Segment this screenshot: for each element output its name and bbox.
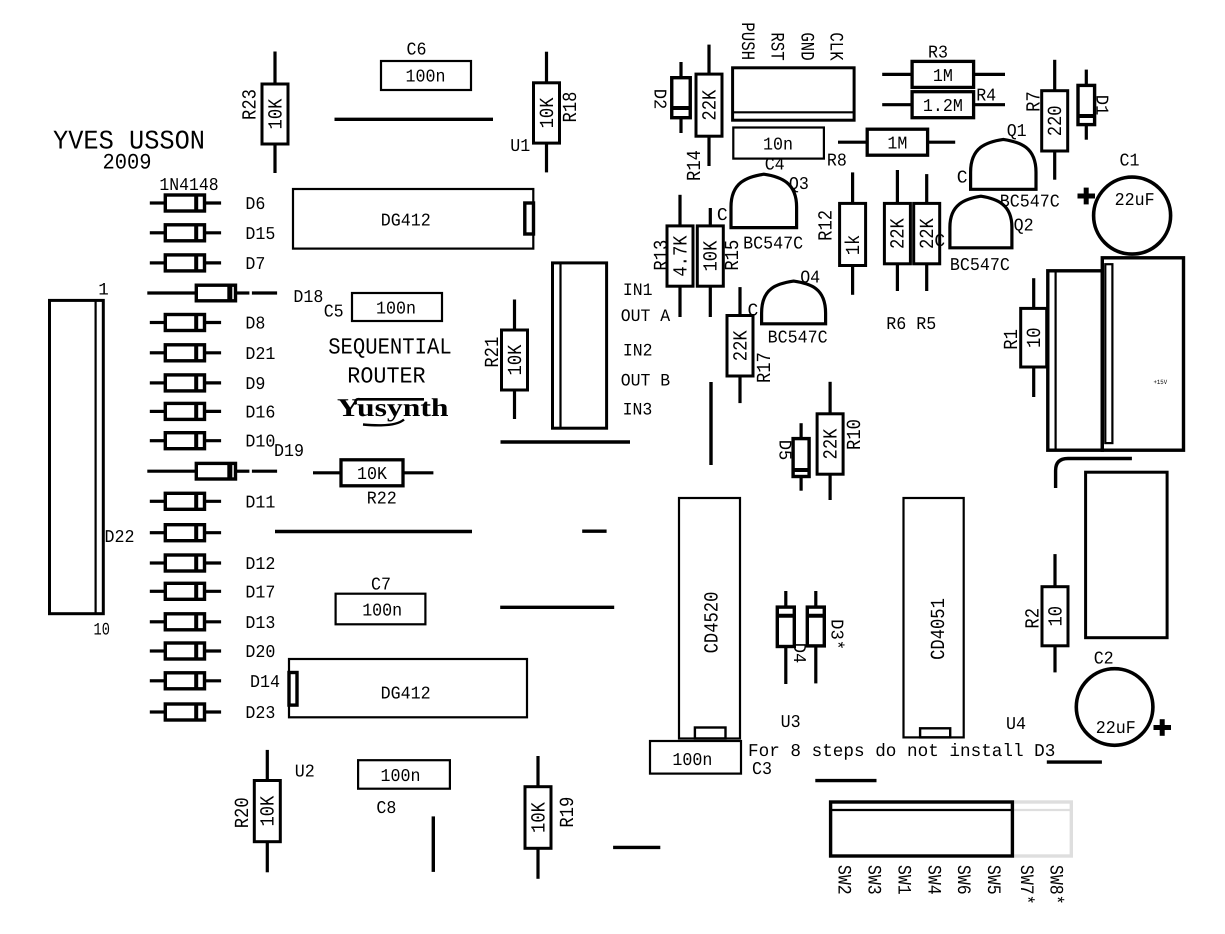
- svg-text:10: 10: [1024, 327, 1047, 348]
- diode D3*: [807, 591, 824, 683]
- connector J2 (IN/OUT): [553, 263, 607, 428]
- capacitor block C2 region box: [1086, 472, 1168, 638]
- transistor Q4: [762, 281, 826, 324]
- svg-text:BC547C: BC547C: [768, 329, 828, 349]
- svg-text:D12: D12: [245, 555, 275, 575]
- diode D23: [150, 704, 221, 720]
- resistor R15: [697, 208, 723, 317]
- svg-text:SW7*: SW7*: [1015, 865, 1037, 905]
- diode D20: [150, 643, 221, 659]
- svg-text:D1: D1: [1091, 95, 1111, 116]
- resistor R4: [882, 92, 1005, 118]
- IC U3 CD4520: [679, 498, 740, 739]
- wire: [582, 530, 606, 533]
- svg-text:D20: D20: [245, 643, 275, 663]
- svg-text:100n: 100n: [376, 300, 416, 320]
- svg-text:Q1: Q1: [1007, 122, 1027, 142]
- transistor Q3: [731, 174, 797, 227]
- svg-text:D16: D16: [245, 404, 275, 424]
- svg-text:10: 10: [94, 621, 110, 641]
- resistor R19: [525, 756, 551, 879]
- svg-text:Q2: Q2: [1014, 217, 1034, 237]
- diode D16: [150, 403, 221, 419]
- svg-text:ROUTER: ROUTER: [347, 363, 425, 389]
- svg-text:1.2M: 1.2M: [923, 97, 963, 117]
- power header body: [1102, 258, 1183, 450]
- svg-text:R10: R10: [844, 419, 867, 450]
- diode D13: [150, 614, 221, 630]
- diode D15: [150, 225, 221, 241]
- resistor R5: [914, 174, 940, 291]
- svg-text:R19: R19: [557, 797, 580, 828]
- svg-text:GND: GND: [795, 32, 817, 60]
- resistor R10: [817, 382, 843, 500]
- diode D19: [147, 463, 277, 479]
- svg-text:R1: R1: [1001, 329, 1024, 350]
- plus sign of C2: [1154, 719, 1172, 736]
- transistor Q1: [971, 139, 1036, 189]
- svg-text:D10: D10: [245, 433, 275, 453]
- svg-text:R2: R2: [1023, 608, 1046, 629]
- svg-text:D14: D14: [250, 673, 280, 693]
- resistor R3: [882, 61, 1005, 87]
- svg-text:R21: R21: [482, 337, 505, 368]
- connector J3 (PUSH/RST/GND/CLK): [733, 68, 855, 120]
- svg-text:22K: 22K: [888, 218, 911, 249]
- svg-text:220: 220: [1045, 105, 1068, 136]
- diode D8: [150, 315, 221, 331]
- svg-text:IN3: IN3: [623, 400, 653, 420]
- switch connector gray extension (SW7/SW8): [1012, 802, 1071, 856]
- svg-text:C6: C6: [407, 41, 427, 61]
- svg-text:IN1: IN1: [623, 281, 653, 301]
- svg-text:SW4: SW4: [922, 865, 944, 895]
- svg-text:DG412: DG412: [381, 685, 431, 705]
- svg-text:D2: D2: [649, 89, 669, 110]
- svg-text:R18: R18: [560, 92, 583, 123]
- capacitor C6: [381, 61, 471, 90]
- diode D7: [150, 255, 221, 271]
- diode D2: [672, 62, 691, 133]
- svg-text:100n: 100n: [362, 602, 402, 622]
- logo Yusynth: [337, 393, 449, 425]
- wire: [335, 118, 494, 121]
- svg-text:SW5: SW5: [982, 865, 1004, 895]
- svg-text:R22: R22: [367, 490, 397, 510]
- svg-text:D7: D7: [245, 255, 265, 275]
- plus sign of C1: [1078, 188, 1096, 205]
- capacitor C4: [733, 128, 824, 159]
- svg-text:SW2: SW2: [833, 865, 855, 895]
- svg-text:D21: D21: [245, 345, 275, 365]
- svg-text:U3: U3: [781, 713, 801, 733]
- diode D17: [150, 583, 221, 599]
- svg-text:RST: RST: [765, 32, 787, 60]
- capacitor C3: [650, 741, 741, 774]
- pin-1 notch of U4: [920, 728, 950, 737]
- svg-text:100n: 100n: [381, 767, 421, 787]
- wire: [275, 530, 472, 533]
- svg-text:10K: 10K: [357, 465, 387, 485]
- svg-text:R8: R8: [827, 152, 847, 172]
- svg-text:10: 10: [1045, 606, 1068, 627]
- svg-text:C2: C2: [1094, 650, 1114, 670]
- diode D4: [777, 591, 794, 684]
- wire: [500, 606, 614, 609]
- IC U1 DG412: [293, 189, 533, 249]
- svg-text:22uF: 22uF: [1096, 719, 1136, 739]
- resistor R14: [696, 45, 722, 166]
- resistor R18: [534, 52, 560, 173]
- resistor R12: [840, 172, 866, 294]
- resistor R8: [838, 129, 955, 155]
- svg-text:D22: D22: [105, 528, 135, 548]
- svg-text:1M: 1M: [933, 67, 953, 87]
- IC U4 CD4051: [904, 498, 964, 737]
- svg-text:D11: D11: [245, 494, 275, 514]
- svg-text:C: C: [934, 232, 945, 252]
- IC U2 DG412: [289, 659, 527, 717]
- svg-text:1: 1: [98, 280, 109, 300]
- svg-text:D8: D8: [245, 315, 265, 335]
- switch connector body: [831, 802, 1013, 856]
- wire: [709, 382, 712, 465]
- svg-text:10K: 10K: [505, 345, 528, 376]
- power connector inner line: [1054, 271, 1056, 450]
- resistor R20: [254, 750, 280, 872]
- resistor R17: [727, 287, 753, 403]
- svg-text:R12: R12: [816, 210, 839, 241]
- connector J1 (left 10-pin): [50, 300, 104, 613]
- svg-text:R6 R5: R6 R5: [886, 315, 936, 335]
- svg-text:100n: 100n: [406, 68, 446, 88]
- svg-text:D18: D18: [293, 288, 323, 308]
- svg-text:C1: C1: [1120, 152, 1140, 172]
- svg-text:U4: U4: [1006, 715, 1026, 735]
- svg-text:IN2: IN2: [623, 341, 653, 361]
- svg-text:10K: 10K: [537, 98, 560, 129]
- svg-text:C4: C4: [765, 156, 785, 176]
- svg-text:D3*: D3*: [826, 619, 846, 650]
- svg-text:OUT B: OUT B: [621, 372, 671, 392]
- svg-text:2009: 2009: [103, 151, 152, 176]
- svg-text:R15: R15: [722, 240, 745, 271]
- wire: [613, 846, 660, 849]
- svg-text:U2: U2: [295, 762, 315, 782]
- svg-text:C5: C5: [324, 303, 344, 323]
- capacitor C1 (22uF electrolytic): [1094, 177, 1171, 254]
- svg-text:SEQUENTIAL: SEQUENTIAL: [328, 335, 452, 361]
- svg-text:SW3: SW3: [862, 865, 884, 895]
- svg-text:1N4148: 1N4148: [159, 176, 218, 196]
- wire: [501, 440, 631, 443]
- diode D12: [150, 555, 221, 571]
- svg-text:PUSH: PUSH: [736, 22, 758, 60]
- svg-text:D5: D5: [773, 440, 793, 461]
- capacitor C7: [336, 594, 426, 625]
- svg-text:1k: 1k: [843, 235, 866, 256]
- svg-text:C: C: [717, 206, 728, 226]
- svg-text:SW6: SW6: [952, 865, 974, 895]
- svg-text:C7: C7: [371, 576, 391, 596]
- diode D5: [793, 423, 809, 491]
- wire: [1047, 760, 1102, 763]
- svg-text:SW1: SW1: [893, 865, 915, 895]
- diode D9: [150, 375, 221, 391]
- svg-text:10K: 10K: [528, 802, 551, 833]
- svg-text:BC547C: BC547C: [950, 256, 1010, 276]
- svg-text:10K: 10K: [265, 99, 288, 130]
- svg-text:SW8*: SW8*: [1045, 865, 1067, 905]
- svg-text:C3: C3: [752, 760, 772, 780]
- resistor R22: [313, 460, 433, 486]
- svg-text:D15: D15: [245, 225, 275, 245]
- svg-text:BC547C: BC547C: [743, 234, 803, 254]
- diode D6: [150, 195, 221, 211]
- diode D10: [150, 433, 221, 449]
- transistor Q2: [950, 196, 1012, 248]
- svg-text:D13: D13: [245, 614, 275, 634]
- diode D22: [150, 525, 221, 541]
- capacitor C5: [352, 293, 442, 321]
- svg-text:22K: 22K: [730, 330, 753, 361]
- svg-text:U1: U1: [510, 137, 530, 157]
- svg-text:D23: D23: [245, 704, 275, 724]
- svg-text:Q4: Q4: [800, 268, 820, 288]
- diode D11: [150, 493, 221, 509]
- power header key strip: [1105, 264, 1112, 443]
- svg-text:R20: R20: [232, 797, 255, 828]
- pin-1 notch of U2: [289, 673, 297, 706]
- diode D21: [150, 345, 221, 361]
- resistor R7: [1042, 60, 1068, 180]
- pin-1 notch of U3: [695, 728, 726, 739]
- svg-text:D9: D9: [245, 375, 265, 395]
- svg-text:C: C: [957, 168, 968, 188]
- svg-text:1M: 1M: [887, 135, 907, 155]
- svg-text:C8: C8: [376, 799, 396, 819]
- diode D18: [147, 285, 277, 301]
- capacitor C8: [358, 760, 450, 789]
- svg-text:CD4051: CD4051: [928, 598, 951, 660]
- diode D14: [150, 673, 221, 689]
- resistor R1: [1021, 278, 1047, 397]
- svg-text:D17: D17: [245, 584, 275, 604]
- svg-text:Yusynth: Yusynth: [337, 393, 449, 422]
- svg-text:R23: R23: [240, 89, 263, 120]
- svg-text:D19: D19: [274, 442, 304, 462]
- svg-text:OUT A: OUT A: [621, 307, 671, 327]
- resistor R23: [262, 52, 288, 174]
- svg-text:10K: 10K: [701, 241, 724, 272]
- svg-text:10n: 10n: [763, 136, 793, 156]
- svg-text:R4: R4: [976, 87, 996, 107]
- svg-text:22K: 22K: [699, 90, 722, 121]
- svg-text:Q3: Q3: [789, 175, 809, 195]
- svg-text:CD4520: CD4520: [702, 592, 725, 654]
- resistor R6: [884, 170, 910, 291]
- resistor R13: [667, 195, 693, 317]
- svg-text:R14: R14: [684, 150, 707, 181]
- power connector housing: [1048, 271, 1103, 450]
- pin-1 notch of U1: [525, 203, 534, 234]
- svg-text:+15V: +15V: [1154, 379, 1168, 386]
- svg-text:CLK: CLK: [824, 32, 846, 61]
- svg-text:For 8 steps do not install D3: For 8 steps do not install D3: [748, 742, 1055, 762]
- svg-text:100n: 100n: [672, 751, 712, 771]
- svg-text:22K: 22K: [820, 429, 843, 460]
- svg-text:22uF: 22uF: [1115, 191, 1155, 211]
- resistor R2: [1042, 554, 1068, 672]
- svg-text:DG412: DG412: [381, 212, 431, 232]
- svg-text:R17: R17: [754, 352, 777, 383]
- svg-text:R3: R3: [928, 44, 948, 64]
- wire with corner: [1056, 459, 1132, 489]
- svg-text:10K: 10K: [258, 796, 281, 827]
- svg-text:R13: R13: [651, 240, 674, 271]
- capacitor C2 (22uF electrolytic): [1076, 669, 1153, 746]
- wire: [432, 816, 435, 872]
- wire: [815, 779, 876, 782]
- resistor R21: [502, 300, 528, 420]
- svg-text:D4: D4: [788, 643, 808, 664]
- diode D1: [1078, 70, 1095, 140]
- svg-text:D6: D6: [245, 195, 265, 215]
- svg-text:R7: R7: [1024, 91, 1047, 112]
